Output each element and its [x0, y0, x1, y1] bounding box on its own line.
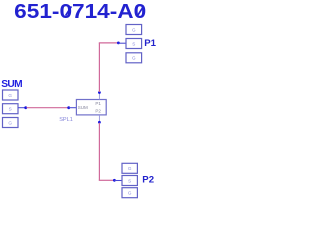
- pin stub SPL1 SUM pin: [69, 107, 77, 109]
- connector P2 pin S box: [122, 176, 137, 186]
- connector P2 pin G box 2: [122, 188, 137, 198]
- pin stub SUM-S: [18, 107, 26, 109]
- svg-text:SUM: SUM: [1, 79, 22, 90]
- svg-text:P1: P1: [95, 101, 101, 106]
- svg-text:S: S: [128, 178, 131, 183]
- wire net P2 horizontal: [99, 179, 114, 181]
- svg-text:SUM: SUM: [78, 105, 88, 110]
- svg-text:G: G: [132, 27, 136, 32]
- pin stub SPL1 P1 pin (top): [98, 93, 100, 100]
- title 651-0714-A0: [14, 1, 146, 23]
- pin stub SPL1 P2 pin (bottom): [98, 115, 100, 122]
- svg-text:G: G: [132, 56, 136, 61]
- block SPL1 body: [76, 100, 106, 115]
- wire net P1 vertical: [98, 43, 100, 92]
- svg-text:S: S: [9, 107, 12, 112]
- svg-text:P1: P1: [144, 38, 156, 49]
- junction dot P2: [113, 179, 116, 182]
- svg-text:S: S: [132, 41, 135, 46]
- junction dot SPL1 P1 pin: [98, 91, 101, 94]
- connector P1 pin S box: [126, 39, 142, 49]
- connector P1 pin G box: [126, 25, 142, 35]
- junction dot P1: [117, 42, 120, 45]
- connector SUM pin G box 2: [3, 118, 19, 128]
- connector P1 pin G box 2: [126, 53, 142, 63]
- wire net P1 horizontal: [99, 42, 118, 44]
- svg-text:P2: P2: [95, 109, 101, 114]
- svg-text:G: G: [128, 191, 132, 196]
- wire net SUM: [27, 107, 69, 109]
- svg-text:SPL1: SPL1: [59, 117, 73, 123]
- junction dot SPL1 left pin: [67, 106, 70, 109]
- svg-text:G: G: [8, 120, 12, 125]
- svg-text:651-0714-A0: 651-0714-A0: [14, 1, 146, 23]
- connector SUM pin S box: [3, 104, 19, 114]
- pin stub P1-S: [118, 42, 126, 44]
- connector SUM pin G box: [3, 90, 19, 100]
- junction dot SPL1 P2 pin: [98, 121, 101, 124]
- svg-text:G: G: [128, 166, 132, 171]
- pin stub P2-S: [114, 180, 122, 182]
- junction dot SUM: [24, 106, 27, 109]
- connector P2 pin G box: [122, 163, 137, 173]
- svg-text:P2: P2: [142, 174, 154, 185]
- wire net P2 vertical: [98, 123, 100, 181]
- svg-text:G: G: [8, 93, 12, 98]
